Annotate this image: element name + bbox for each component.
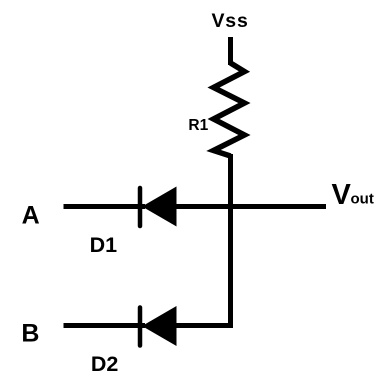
diode D2 cathode bar: [138, 308, 143, 346]
svg-text:V: V: [332, 179, 352, 211]
diode D1 cathode bar: [138, 188, 143, 226]
wire diode D2 to vertical wire junction: [176, 323, 233, 328]
net Vout label: [332, 179, 374, 211]
power Vss label: [212, 10, 249, 32]
label R1: [188, 117, 208, 134]
wire Vss to resistor R1 top: [228, 37, 233, 65]
wire input A to diode D1: [64, 204, 146, 209]
svg-text:A: A: [22, 202, 40, 230]
label D2: [91, 352, 119, 376]
resistor R1: [214, 63, 245, 156]
diode D2 triangle: [142, 306, 177, 346]
svg-text:Vss: Vss: [212, 10, 249, 32]
node A input label: [22, 202, 40, 230]
svg-text:D1: D1: [90, 233, 118, 257]
wire resistor bottom through node to diode D2 corner: [228, 154, 233, 328]
node B input label: [21, 319, 39, 347]
svg-text:R1: R1: [188, 117, 208, 134]
diode D1 triangle: [142, 187, 177, 227]
label D1: [90, 233, 118, 257]
svg-text:out: out: [351, 191, 374, 208]
wire input B to diode D2: [64, 323, 146, 328]
svg-text:B: B: [21, 319, 39, 347]
svg-text:D2: D2: [91, 352, 119, 376]
wire diode D1 to node and Vout: [176, 204, 326, 209]
